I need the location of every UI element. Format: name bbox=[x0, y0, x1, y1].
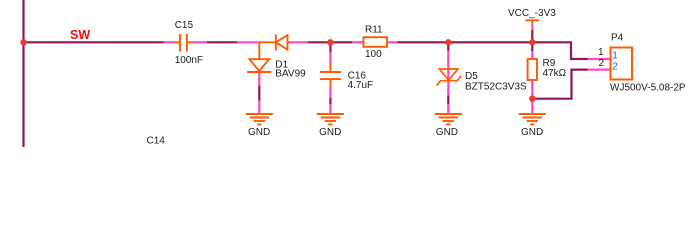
wire: R11 to node C bbox=[398, 41, 449, 43]
svg-text:47kΩ: 47kΩ bbox=[543, 68, 567, 79]
pin lead: C15 left bbox=[164, 41, 175, 43]
wire: D1 to GND bbox=[258, 86, 260, 101]
node C junction bbox=[445, 39, 451, 45]
svg-text:R11: R11 bbox=[365, 25, 383, 36]
wire: node C to node D bbox=[448, 41, 532, 43]
resistor R11 bbox=[364, 37, 388, 47]
svg-text:D5: D5 bbox=[465, 71, 478, 82]
pin lead: GND under C16 bbox=[329, 104, 331, 113]
wire: node B down bbox=[329, 42, 331, 52]
pin lead: R11 left bbox=[352, 41, 364, 43]
svg-text:GND: GND bbox=[436, 127, 458, 138]
wire: VCC to node D bbox=[531, 30, 533, 42]
wire: node C down bbox=[447, 42, 449, 50]
capacitor C16 bbox=[320, 63, 341, 88]
pin lead: R11 right bbox=[387, 41, 398, 43]
svg-text:C15: C15 bbox=[175, 20, 194, 31]
svg-text:WJ500V-5.08-2P: WJ500V-5.08-2P bbox=[610, 83, 686, 94]
node A junction bbox=[20, 39, 26, 45]
pin lead: P4 pin1 bbox=[588, 58, 611, 60]
pin lead: GND under D5 bbox=[447, 104, 449, 113]
node E junction bbox=[529, 96, 535, 102]
ground under D1 bbox=[246, 114, 273, 124]
pin lead: D1 left bbox=[237, 41, 258, 43]
svg-text:GND: GND bbox=[521, 127, 543, 138]
svg-text:GND: GND bbox=[248, 127, 270, 138]
svg-text:BAV99: BAV99 bbox=[275, 69, 306, 80]
svg-text:1: 1 bbox=[612, 51, 618, 62]
node D junction bbox=[529, 39, 535, 45]
pin lead: D5 through bbox=[447, 51, 449, 96]
connector P4 bbox=[611, 48, 633, 80]
svg-text:BZT52C3V3S: BZT52C3V3S bbox=[465, 82, 527, 93]
pin lead: GND under D1 bbox=[258, 101, 260, 114]
pin lead: R9 bottom to GND bbox=[531, 80, 533, 113]
wire: node E to connector pin2 bbox=[532, 70, 587, 99]
wire: node D to connector pin1 bbox=[532, 42, 587, 59]
diode D1 (BAV99 dual) bbox=[247, 35, 290, 73]
resistor R9 bbox=[528, 59, 537, 80]
wire: C15 to D1 bbox=[207, 41, 237, 43]
svg-text:100nF: 100nF bbox=[175, 55, 203, 66]
zener diode D5 bbox=[437, 69, 462, 86]
svg-text:100: 100 bbox=[365, 49, 382, 60]
svg-text:P4: P4 bbox=[611, 33, 624, 44]
svg-text:VCC_-3V3: VCC_-3V3 bbox=[508, 8, 556, 19]
svg-text:1: 1 bbox=[598, 47, 604, 58]
svg-text:4.7uF: 4.7uF bbox=[348, 80, 374, 91]
svg-text:C14: C14 bbox=[147, 136, 166, 147]
pin lead: P4 pin2 bbox=[588, 68, 611, 70]
wire: D1 to node B bbox=[308, 41, 330, 43]
ground under D5 bbox=[435, 114, 462, 124]
svg-text:SW: SW bbox=[70, 28, 90, 42]
wire: main horizontal SW to C15 bbox=[24, 41, 164, 43]
wire: D5 to GND bbox=[447, 96, 449, 105]
pin lead: C15 right bbox=[194, 41, 208, 43]
svg-text:GND: GND bbox=[319, 127, 341, 138]
pin lead: R9 top bbox=[531, 51, 533, 59]
node B junction bbox=[327, 39, 333, 45]
wire: C16 to GND bbox=[329, 98, 331, 104]
capacitor C15 bbox=[174, 34, 193, 52]
ground under C16 bbox=[317, 114, 344, 124]
pin lead: C16 top bbox=[329, 52, 331, 63]
ground under R9 bbox=[519, 114, 546, 124]
wire: node B to R11 bbox=[330, 41, 352, 43]
pin lead: VCC bbox=[531, 24, 533, 30]
svg-text:2: 2 bbox=[612, 62, 618, 73]
svg-text:2: 2 bbox=[598, 58, 604, 69]
pin lead: C16 bottom bbox=[329, 88, 331, 98]
pin lead: D1 right bbox=[290, 41, 308, 43]
pin lead: D1 bottom bbox=[258, 73, 260, 86]
wire: left vertical bus bbox=[22, 0, 24, 147]
wire: node D to R9 bbox=[531, 42, 533, 51]
